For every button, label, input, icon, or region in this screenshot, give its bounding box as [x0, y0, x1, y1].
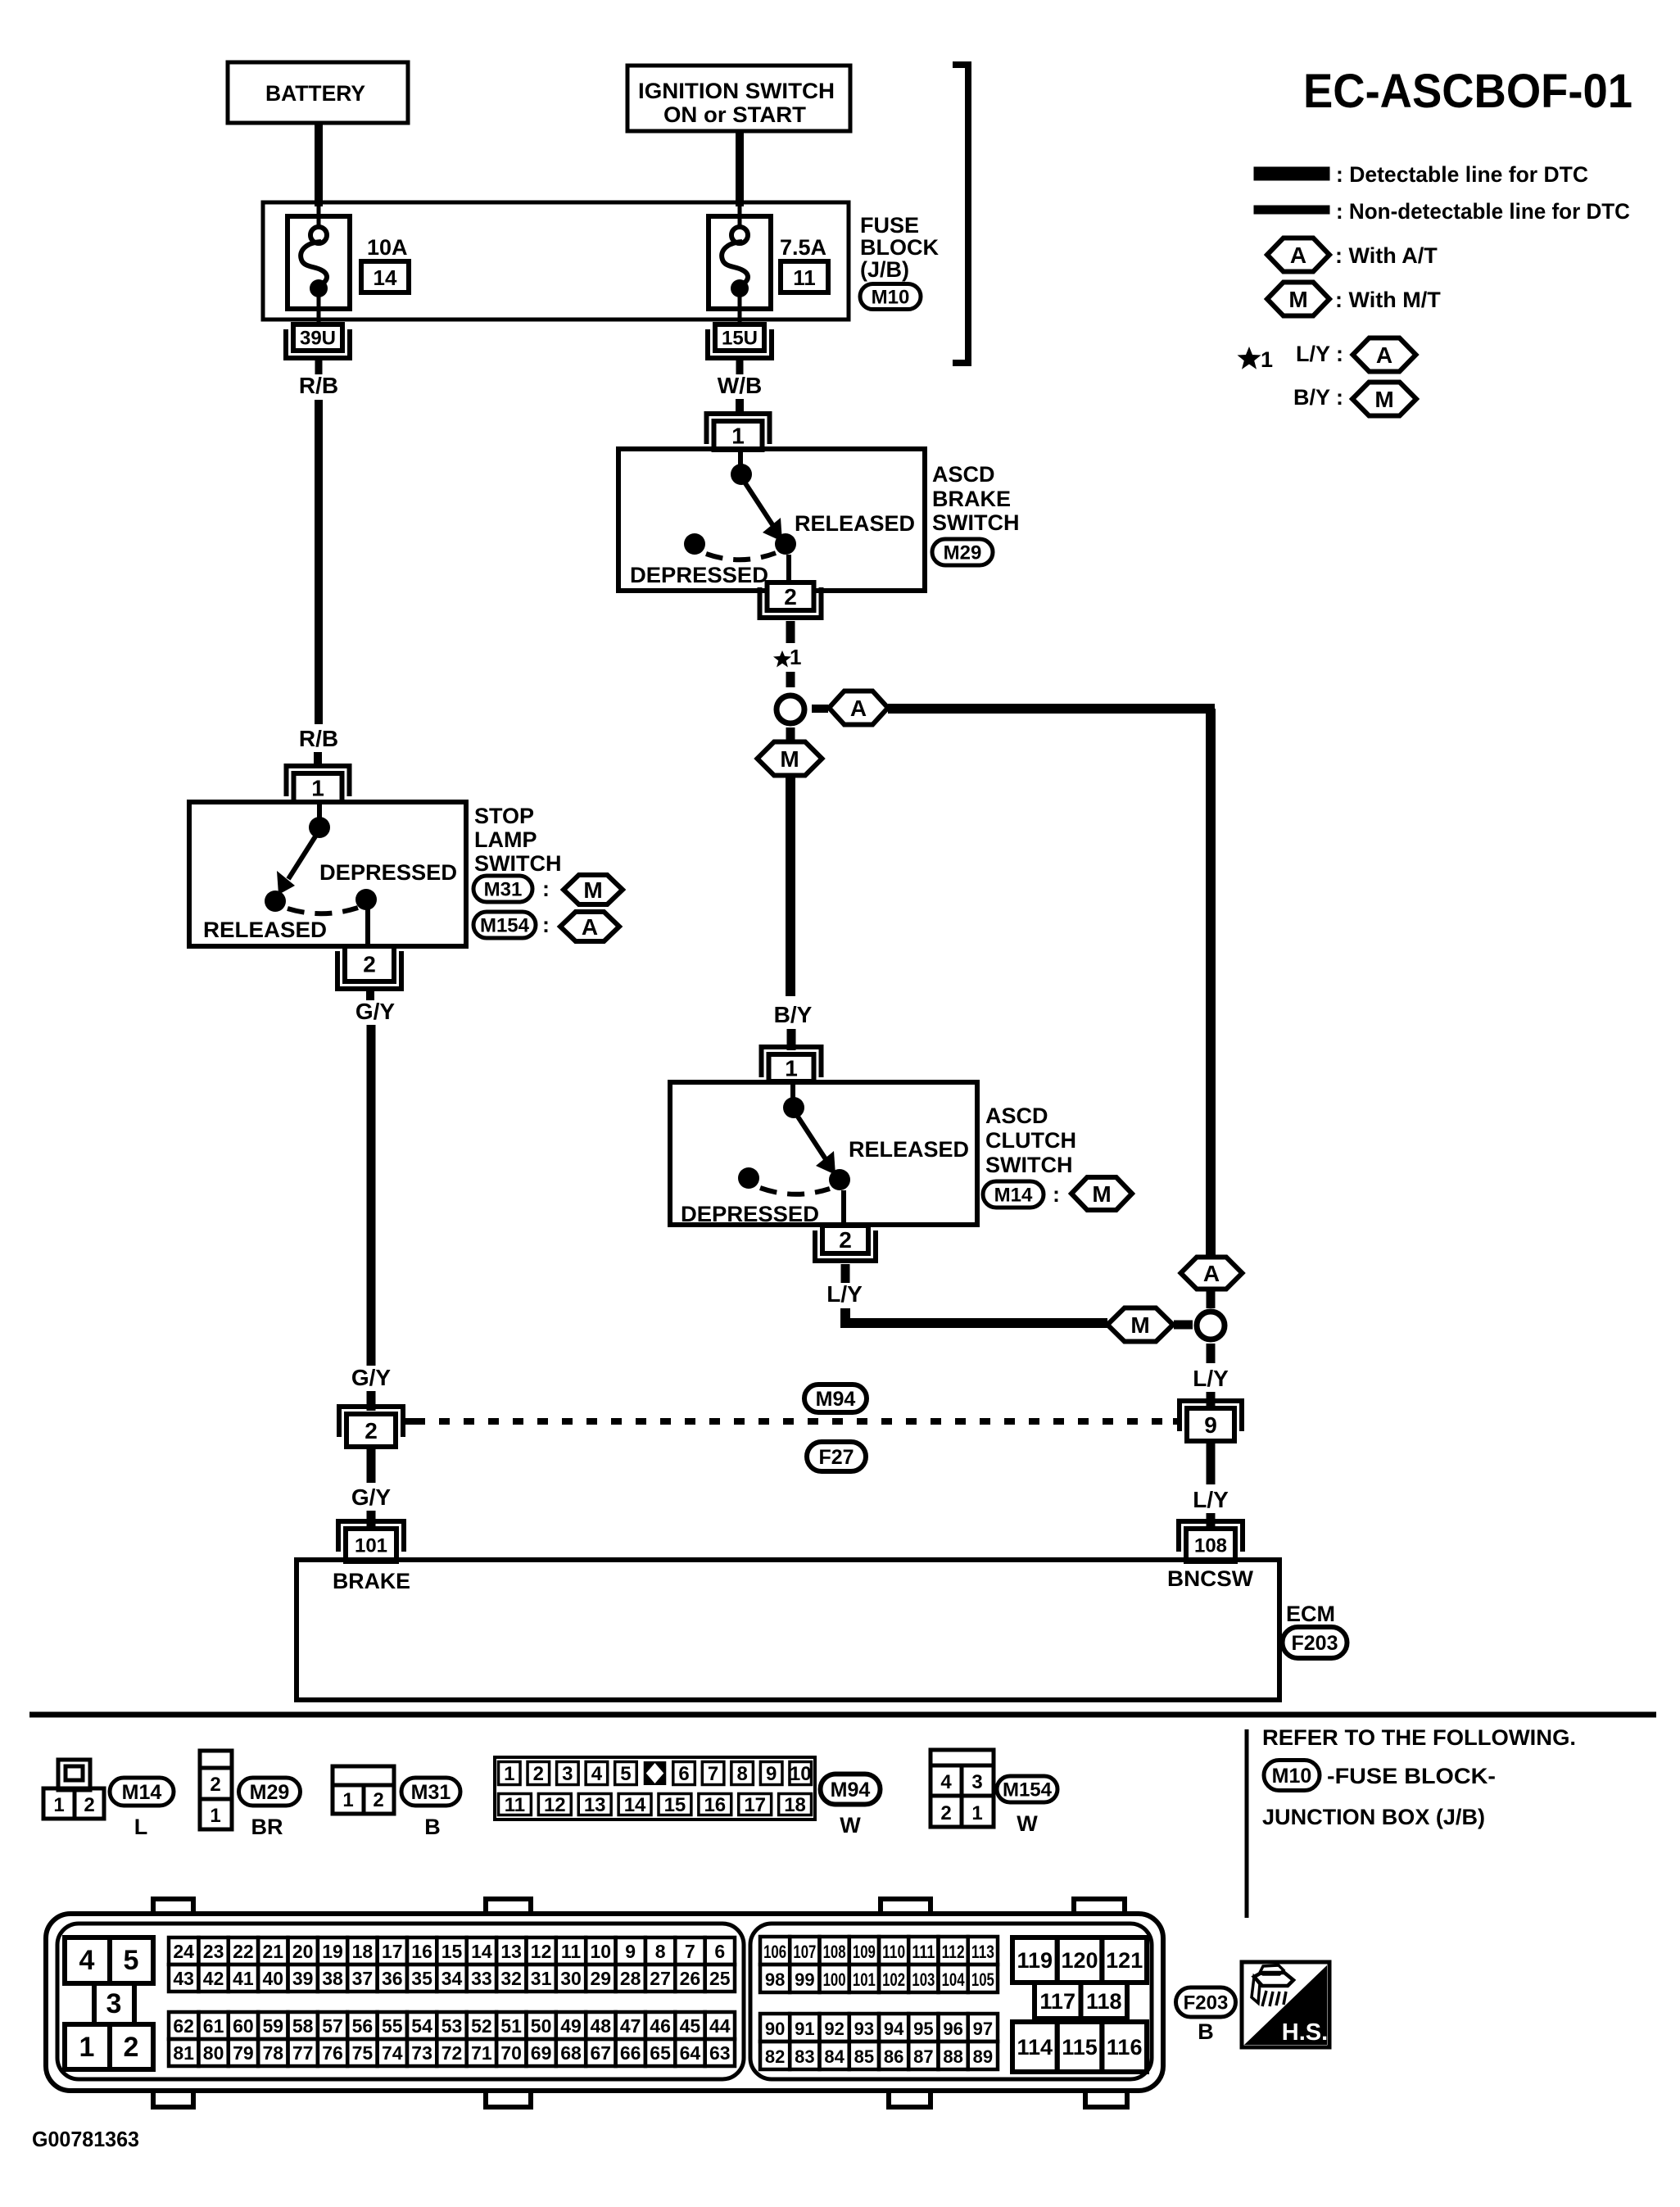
svg-text:11: 11 — [793, 265, 816, 290]
connector 2 stop lamp switch — [337, 946, 401, 989]
svg-text:64: 64 — [680, 2042, 701, 2064]
svg-text:19: 19 — [322, 1941, 343, 1962]
svg-text:100: 100 — [823, 1969, 846, 1990]
svg-text:83: 83 — [795, 2046, 814, 2067]
stop lamp wire to contact — [317, 804, 322, 819]
svg-text:56: 56 — [352, 2015, 374, 2037]
svg-text:A: A — [1203, 1261, 1220, 1286]
svg-text:1: 1 — [53, 1794, 64, 1816]
svg-text:R/B: R/B — [299, 373, 338, 398]
junction circle 1 — [777, 696, 804, 723]
svg-text:DEPRESSED: DEPRESSED — [319, 860, 457, 885]
svg-text:CLUTCH: CLUTCH — [985, 1128, 1076, 1153]
svg-text:75: 75 — [352, 2042, 374, 2064]
svg-text:18: 18 — [784, 1794, 806, 1816]
label F203 ref — [1176, 1987, 1236, 2044]
junction circle 2 — [1197, 1312, 1225, 1339]
svg-text:M10: M10 — [872, 287, 910, 309]
brake switch wire to contact — [738, 451, 743, 467]
svg-text:86: 86 — [884, 2046, 903, 2067]
svg-text:51: 51 — [500, 2015, 522, 2037]
svg-text:81: 81 — [173, 2042, 194, 2064]
svg-text:W/B: W/B — [718, 373, 762, 398]
clutch switch arm — [798, 1117, 850, 1190]
svg-text:EC-ASCBOF-01: EC-ASCBOF-01 — [1303, 65, 1632, 118]
wire dash above junction 1 — [786, 672, 795, 687]
svg-text:103: 103 — [912, 1969, 935, 1990]
svg-text:BNCSW: BNCSW — [1167, 1566, 1254, 1591]
svg-text:L/Y: L/Y — [826, 1281, 863, 1307]
svg-text:ECM: ECM — [1286, 1602, 1335, 1626]
svg-text:119: 119 — [1017, 1948, 1053, 1973]
svg-text:39U: 39U — [300, 328, 336, 350]
hexagon M 2 — [1107, 1308, 1173, 1342]
svg-text:M: M — [583, 877, 602, 903]
legend star1 L/Y A — [1238, 338, 1416, 373]
svg-text:W: W — [1017, 1811, 1038, 1836]
svg-text:M14: M14 — [994, 1185, 1033, 1207]
label G/Y 3 — [351, 1484, 392, 1510]
svg-text:45: 45 — [680, 2015, 701, 2037]
svg-text:9: 9 — [1204, 1412, 1217, 1438]
svg-text:B: B — [424, 1815, 441, 1839]
svg-text:11: 11 — [561, 1941, 582, 1962]
label RELEASED clutch switch — [849, 1137, 969, 1162]
battery box — [228, 62, 408, 123]
svg-text:M: M — [1092, 1181, 1111, 1207]
svg-text:13: 13 — [500, 1941, 522, 1962]
label F27 oval — [807, 1442, 866, 1471]
svg-text:102: 102 — [882, 1969, 905, 1990]
label R/B 1 — [299, 373, 338, 398]
svg-text:25: 25 — [709, 1968, 731, 1989]
svg-text:20: 20 — [292, 1941, 314, 1962]
svg-text:32: 32 — [500, 1968, 522, 1989]
svg-text:2: 2 — [363, 952, 376, 977]
svg-text:SWITCH: SWITCH — [474, 851, 561, 876]
svg-text:17: 17 — [744, 1794, 766, 1816]
svg-text:M14: M14 — [122, 1781, 162, 1804]
svg-text:66: 66 — [620, 2042, 641, 2064]
svg-text:12: 12 — [544, 1794, 566, 1816]
svg-text:55: 55 — [382, 2015, 403, 2037]
svg-text:RELEASED: RELEASED — [795, 511, 915, 536]
svg-text::: : — [542, 913, 550, 937]
svg-text:ASCD: ASCD — [932, 462, 995, 487]
svg-text:59: 59 — [263, 2015, 284, 2037]
svg-text:96: 96 — [943, 2019, 962, 2039]
svg-text:110: 110 — [882, 1942, 905, 1962]
svg-text:12: 12 — [531, 1941, 552, 1962]
fuse 14 10A — [288, 205, 409, 324]
connector view M14 — [43, 1760, 174, 1839]
svg-text:68: 68 — [560, 2042, 582, 2064]
ECM connector left pin grid — [169, 1937, 735, 2066]
svg-text:SWITCH: SWITCH — [932, 510, 1019, 535]
label RELEASED stop lamp — [203, 918, 327, 942]
svg-text:G00781363: G00781363 — [32, 2127, 139, 2151]
brake switch arm — [745, 483, 796, 555]
wire dash below hexagon A2 — [1207, 1289, 1216, 1308]
svg-text:15U: 15U — [722, 328, 758, 350]
svg-text:105: 105 — [971, 1969, 994, 1990]
legend detectable line — [1254, 162, 1588, 187]
stop lamp output wire — [365, 909, 370, 948]
label DEPRESSED stop lamp — [319, 860, 457, 885]
svg-text:REFER TO THE FOLLOWING.: REFER TO THE FOLLOWING. — [1262, 1725, 1576, 1750]
svg-text:106: 106 — [763, 1942, 786, 1962]
svg-text:28: 28 — [620, 1968, 641, 1989]
svg-text:94: 94 — [884, 2019, 904, 2039]
clutch switch top contact — [783, 1097, 804, 1118]
svg-text:A: A — [582, 914, 598, 940]
label M154 with A — [473, 912, 619, 941]
wire A-line horizontal — [888, 704, 1215, 714]
fuse 11 7.5A — [709, 205, 828, 324]
svg-text:B/Y :: B/Y : — [1293, 385, 1343, 410]
svg-text:79: 79 — [233, 2042, 254, 2064]
svg-text:18: 18 — [352, 1941, 374, 1962]
wire ignition feed W/B — [736, 131, 744, 206]
label ECM — [1286, 1602, 1335, 1626]
label FUSE BLOCK (J/B) M10 — [860, 213, 939, 310]
svg-text:15: 15 — [664, 1794, 686, 1816]
svg-text:LAMP: LAMP — [474, 827, 537, 852]
svg-text:23: 23 — [203, 1941, 224, 1962]
svg-text:30: 30 — [560, 1968, 582, 1989]
title EC-ASCBOF-01 — [1303, 65, 1632, 118]
svg-text:3: 3 — [106, 1988, 122, 2019]
connector 15U — [708, 324, 772, 358]
svg-text:117: 117 — [1039, 1989, 1075, 2014]
svg-text::: : — [1053, 1182, 1060, 1207]
svg-text:W: W — [840, 1813, 861, 1838]
legend non-detectable line — [1254, 199, 1630, 224]
svg-text:17: 17 — [382, 1941, 403, 1962]
label REFER TO THE FOLLOWING — [1262, 1725, 1576, 1750]
svg-text:5: 5 — [620, 1763, 631, 1785]
svg-text:74: 74 — [382, 2042, 403, 2064]
svg-text:24: 24 — [173, 1941, 194, 1962]
svg-text:G/Y: G/Y — [355, 999, 396, 1024]
connector 1 stop lamp switch — [287, 766, 350, 802]
svg-text:69: 69 — [531, 2042, 552, 2064]
label JUNCTION BOX (J/B) — [1262, 1805, 1485, 1829]
stop lamp top contact — [309, 817, 330, 838]
wire stub above ECM pin 101 — [367, 1511, 376, 1527]
svg-text:6: 6 — [714, 1941, 725, 1962]
wire R/B run — [315, 400, 323, 724]
svg-text:1: 1 — [731, 424, 745, 449]
wire A-line vertical right — [1206, 709, 1216, 1259]
ECM connector large cells — [1012, 1937, 1147, 2072]
hexagon M 1 — [758, 742, 822, 776]
svg-text:73: 73 — [411, 2042, 432, 2064]
svg-text:1: 1 — [785, 1056, 798, 1081]
svg-text:: With A/T: : With A/T — [1335, 243, 1438, 268]
svg-text:R/B: R/B — [299, 726, 338, 751]
svg-text:72: 72 — [442, 2042, 463, 2064]
svg-text:: Non-detectable line for DTC: : Non-detectable line for DTC — [1336, 199, 1630, 224]
wire stub below stop lamp conn2 — [366, 989, 374, 1000]
svg-text:108: 108 — [1194, 1535, 1227, 1557]
wire stub above conn 9 — [1207, 1392, 1216, 1407]
svg-text:41: 41 — [233, 1968, 254, 1989]
svg-text:BLOCK: BLOCK — [860, 235, 939, 260]
label L/Y 3 — [1193, 1487, 1229, 1512]
svg-text:115: 115 — [1062, 2035, 1098, 2060]
svg-text:120: 120 — [1061, 1948, 1098, 1973]
svg-text:1: 1 — [79, 2032, 95, 2063]
svg-text:1: 1 — [311, 776, 324, 801]
svg-text:98: 98 — [765, 1969, 785, 1990]
svg-text:A: A — [850, 696, 867, 721]
svg-text:16: 16 — [704, 1794, 726, 1816]
wire stub above brake conn1 — [736, 399, 744, 416]
label G/Y 2 — [351, 1365, 392, 1390]
svg-text:L/Y :: L/Y : — [1296, 342, 1343, 366]
ignition switch box — [627, 66, 850, 131]
svg-text:ASCD: ASCD — [985, 1103, 1048, 1128]
svg-text:M: M — [1288, 287, 1307, 312]
svg-text:2: 2 — [124, 2032, 139, 2063]
svg-text:114: 114 — [1017, 2035, 1053, 2060]
wire stub above clutch conn1 — [787, 1029, 796, 1050]
svg-text:82: 82 — [765, 2046, 785, 2067]
ECM box — [297, 1560, 1279, 1700]
svg-text:8: 8 — [655, 1941, 666, 1962]
svg-text::: : — [542, 877, 550, 901]
connector 2 harness M94/F27 — [339, 1407, 403, 1447]
wire below harness conn2 — [367, 1447, 376, 1483]
connector 101 ECM BRAKE — [338, 1521, 404, 1561]
svg-text:35: 35 — [411, 1968, 432, 1989]
svg-text:70: 70 — [500, 2042, 522, 2064]
label R/B 2 — [299, 726, 338, 751]
hexagon A 2 — [1181, 1258, 1243, 1289]
svg-text:2: 2 — [373, 1789, 383, 1811]
label STOP LAMP SWITCH — [474, 804, 561, 876]
stop lamp depressed contact — [355, 889, 377, 910]
svg-text:DEPRESSED: DEPRESSED — [681, 1202, 819, 1226]
svg-text:39: 39 — [292, 1968, 314, 1989]
svg-text:33: 33 — [471, 1968, 492, 1989]
connector 1 ASCD clutch switch — [762, 1047, 822, 1081]
ECM connector right pin grid — [760, 1937, 998, 2069]
wire dash below junction 1 — [786, 727, 795, 744]
svg-text:10A: 10A — [367, 235, 408, 260]
svg-text:108: 108 — [823, 1942, 846, 1962]
svg-text:M29: M29 — [250, 1781, 290, 1804]
svg-text:1: 1 — [210, 1805, 220, 1827]
svg-text:92: 92 — [824, 2019, 844, 2039]
svg-text:15: 15 — [442, 1941, 463, 1962]
label M29 oval — [932, 539, 993, 565]
label W/B — [718, 373, 762, 398]
label L/Y 2 — [1193, 1366, 1229, 1391]
svg-text:21: 21 — [263, 1941, 284, 1962]
label L/Y 1 — [826, 1281, 863, 1307]
svg-text:2: 2 — [784, 584, 797, 610]
svg-text:M29: M29 — [944, 542, 982, 564]
svg-text:99: 99 — [795, 1969, 814, 1990]
H.S. symbol — [1242, 1962, 1329, 2047]
connector view M29 — [200, 1751, 301, 1839]
label G/Y 1 — [355, 999, 396, 1024]
svg-text:97: 97 — [973, 2019, 993, 2039]
clutch switch depressed contact — [738, 1167, 759, 1189]
wire stub above harness conn2 — [367, 1391, 376, 1411]
svg-text:M31: M31 — [484, 879, 523, 901]
svg-text:STOP: STOP — [474, 804, 534, 828]
svg-text:4: 4 — [79, 1945, 95, 1976]
label F203 oval — [1283, 1627, 1347, 1658]
svg-text:JUNCTION BOX (J/B): JUNCTION BOX (J/B) — [1262, 1805, 1485, 1829]
ECM connector key cells — [65, 1937, 153, 2069]
svg-text:16: 16 — [411, 1941, 432, 1962]
svg-text:M: M — [1374, 387, 1393, 412]
svg-text:1: 1 — [1261, 347, 1273, 372]
connector 1 ASCD brake switch — [707, 414, 770, 450]
svg-text:L: L — [134, 1815, 148, 1839]
svg-text:FUSE: FUSE — [860, 213, 919, 238]
connector 2 ASCD clutch switch — [815, 1226, 876, 1261]
svg-text:M: M — [1130, 1312, 1149, 1338]
wire stub below 15U — [736, 359, 744, 374]
connector view M154 — [931, 1750, 1057, 1836]
svg-text:42: 42 — [203, 1968, 224, 1989]
svg-text:5: 5 — [124, 1945, 139, 1976]
svg-text:RELEASED: RELEASED — [849, 1137, 969, 1162]
svg-text:4: 4 — [940, 1771, 952, 1793]
label M94 oval — [804, 1384, 867, 1412]
clutch switch dashed arc — [760, 1188, 830, 1194]
svg-text:IGNITION SWITCH: IGNITION SWITCH — [638, 79, 835, 103]
svg-text:43: 43 — [173, 1968, 194, 1989]
dashed line M94/F27 — [403, 1418, 1180, 1425]
svg-text:26: 26 — [680, 1968, 701, 1989]
legend B/Y M — [1293, 383, 1416, 416]
svg-text:104: 104 — [942, 1969, 966, 1990]
wire below conn 9 — [1207, 1443, 1216, 1484]
svg-text:14: 14 — [624, 1794, 646, 1816]
svg-text:1: 1 — [342, 1789, 353, 1811]
svg-text:62: 62 — [173, 2015, 194, 2037]
svg-text:27: 27 — [650, 1968, 671, 1989]
wire G/Y run — [367, 1025, 376, 1366]
svg-text:95: 95 — [913, 2019, 933, 2039]
svg-text:85: 85 — [854, 2046, 874, 2067]
svg-text:1: 1 — [504, 1763, 514, 1785]
svg-text:10: 10 — [790, 1763, 812, 1785]
svg-text:88: 88 — [943, 2046, 962, 2067]
svg-text:M: M — [780, 746, 799, 772]
svg-text:53: 53 — [442, 2015, 463, 2037]
connector view M31 — [333, 1766, 460, 1839]
svg-text:BRAKE: BRAKE — [333, 1569, 410, 1593]
svg-text:60: 60 — [233, 2015, 254, 2037]
label RELEASED brake switch — [795, 511, 915, 536]
label B/Y — [774, 1002, 813, 1027]
svg-text:11: 11 — [505, 1794, 525, 1816]
svg-text:A: A — [1376, 342, 1392, 368]
svg-text:37: 37 — [352, 1968, 374, 1989]
svg-text:4: 4 — [591, 1763, 603, 1785]
stop lamp switch box — [189, 802, 466, 946]
svg-text:: Detectable line for DTC: : Detectable line for DTC — [1336, 162, 1588, 187]
label M10 fuse block ref — [1264, 1761, 1496, 1791]
svg-text:36: 36 — [382, 1968, 403, 1989]
svg-text:B/Y: B/Y — [774, 1002, 813, 1027]
connector view M94 — [495, 1757, 881, 1838]
svg-text:91: 91 — [795, 2019, 814, 2039]
svg-text:A: A — [1290, 242, 1306, 268]
label DEPRESSED brake switch — [630, 563, 768, 587]
svg-text:3: 3 — [562, 1763, 573, 1785]
svg-text:9: 9 — [766, 1763, 777, 1785]
svg-text:13: 13 — [584, 1794, 606, 1816]
svg-text:2: 2 — [533, 1763, 544, 1785]
svg-text:54: 54 — [411, 2015, 432, 2037]
wire L/Y elbow — [845, 1264, 1107, 1323]
svg-text:111: 111 — [912, 1942, 935, 1962]
svg-text:M31: M31 — [411, 1781, 451, 1804]
svg-text:34: 34 — [442, 1968, 463, 1989]
svg-text:89: 89 — [973, 2046, 993, 2067]
svg-text:6: 6 — [678, 1763, 689, 1785]
svg-text:112: 112 — [942, 1942, 965, 1962]
stop lamp dashed arc — [288, 908, 358, 913]
svg-text:90: 90 — [765, 2019, 785, 2039]
ASCD clutch switch box — [670, 1082, 977, 1225]
svg-text:: With M/T: : With M/T — [1335, 288, 1441, 312]
svg-text:7: 7 — [685, 1941, 695, 1962]
svg-text:1: 1 — [790, 645, 801, 669]
bracket fuse block group — [953, 65, 968, 363]
wire stub above ECM pin 108 — [1207, 1513, 1216, 1527]
svg-text:M94: M94 — [831, 1779, 871, 1801]
wire dash right of junction 1 — [812, 705, 828, 713]
svg-text:109: 109 — [853, 1942, 876, 1962]
svg-text:F203: F203 — [1292, 1632, 1338, 1655]
svg-text:22: 22 — [233, 1941, 254, 1962]
svg-text:F27: F27 — [818, 1446, 854, 1469]
svg-text:14: 14 — [374, 265, 397, 290]
svg-text:77: 77 — [292, 2042, 314, 2064]
wire stub below brake conn2 — [786, 621, 795, 643]
svg-text:2: 2 — [940, 1802, 951, 1824]
label ASCD CLUTCH SWITCH — [985, 1103, 1076, 1177]
wire B/Y run — [786, 776, 795, 996]
hexagon A 1 — [829, 691, 888, 725]
svg-text:F203: F203 — [1184, 1992, 1229, 2014]
svg-text:RELEASED: RELEASED — [203, 918, 327, 942]
legend with A/T — [1267, 238, 1438, 272]
figure id G00781363 — [32, 2127, 139, 2151]
svg-text:H.S.: H.S. — [1282, 2019, 1328, 2046]
svg-text:44: 44 — [709, 2015, 731, 2037]
svg-text:57: 57 — [322, 2015, 343, 2037]
svg-text:65: 65 — [650, 2042, 671, 2064]
svg-text:87: 87 — [913, 2046, 933, 2067]
svg-text:50: 50 — [531, 2015, 552, 2037]
svg-text:71: 71 — [471, 2042, 492, 2064]
svg-text:47: 47 — [620, 2015, 641, 2037]
svg-text:107: 107 — [793, 1942, 816, 1962]
svg-text:9: 9 — [625, 1941, 636, 1962]
brake switch output wire — [786, 555, 791, 584]
label BNCSW — [1167, 1566, 1254, 1591]
